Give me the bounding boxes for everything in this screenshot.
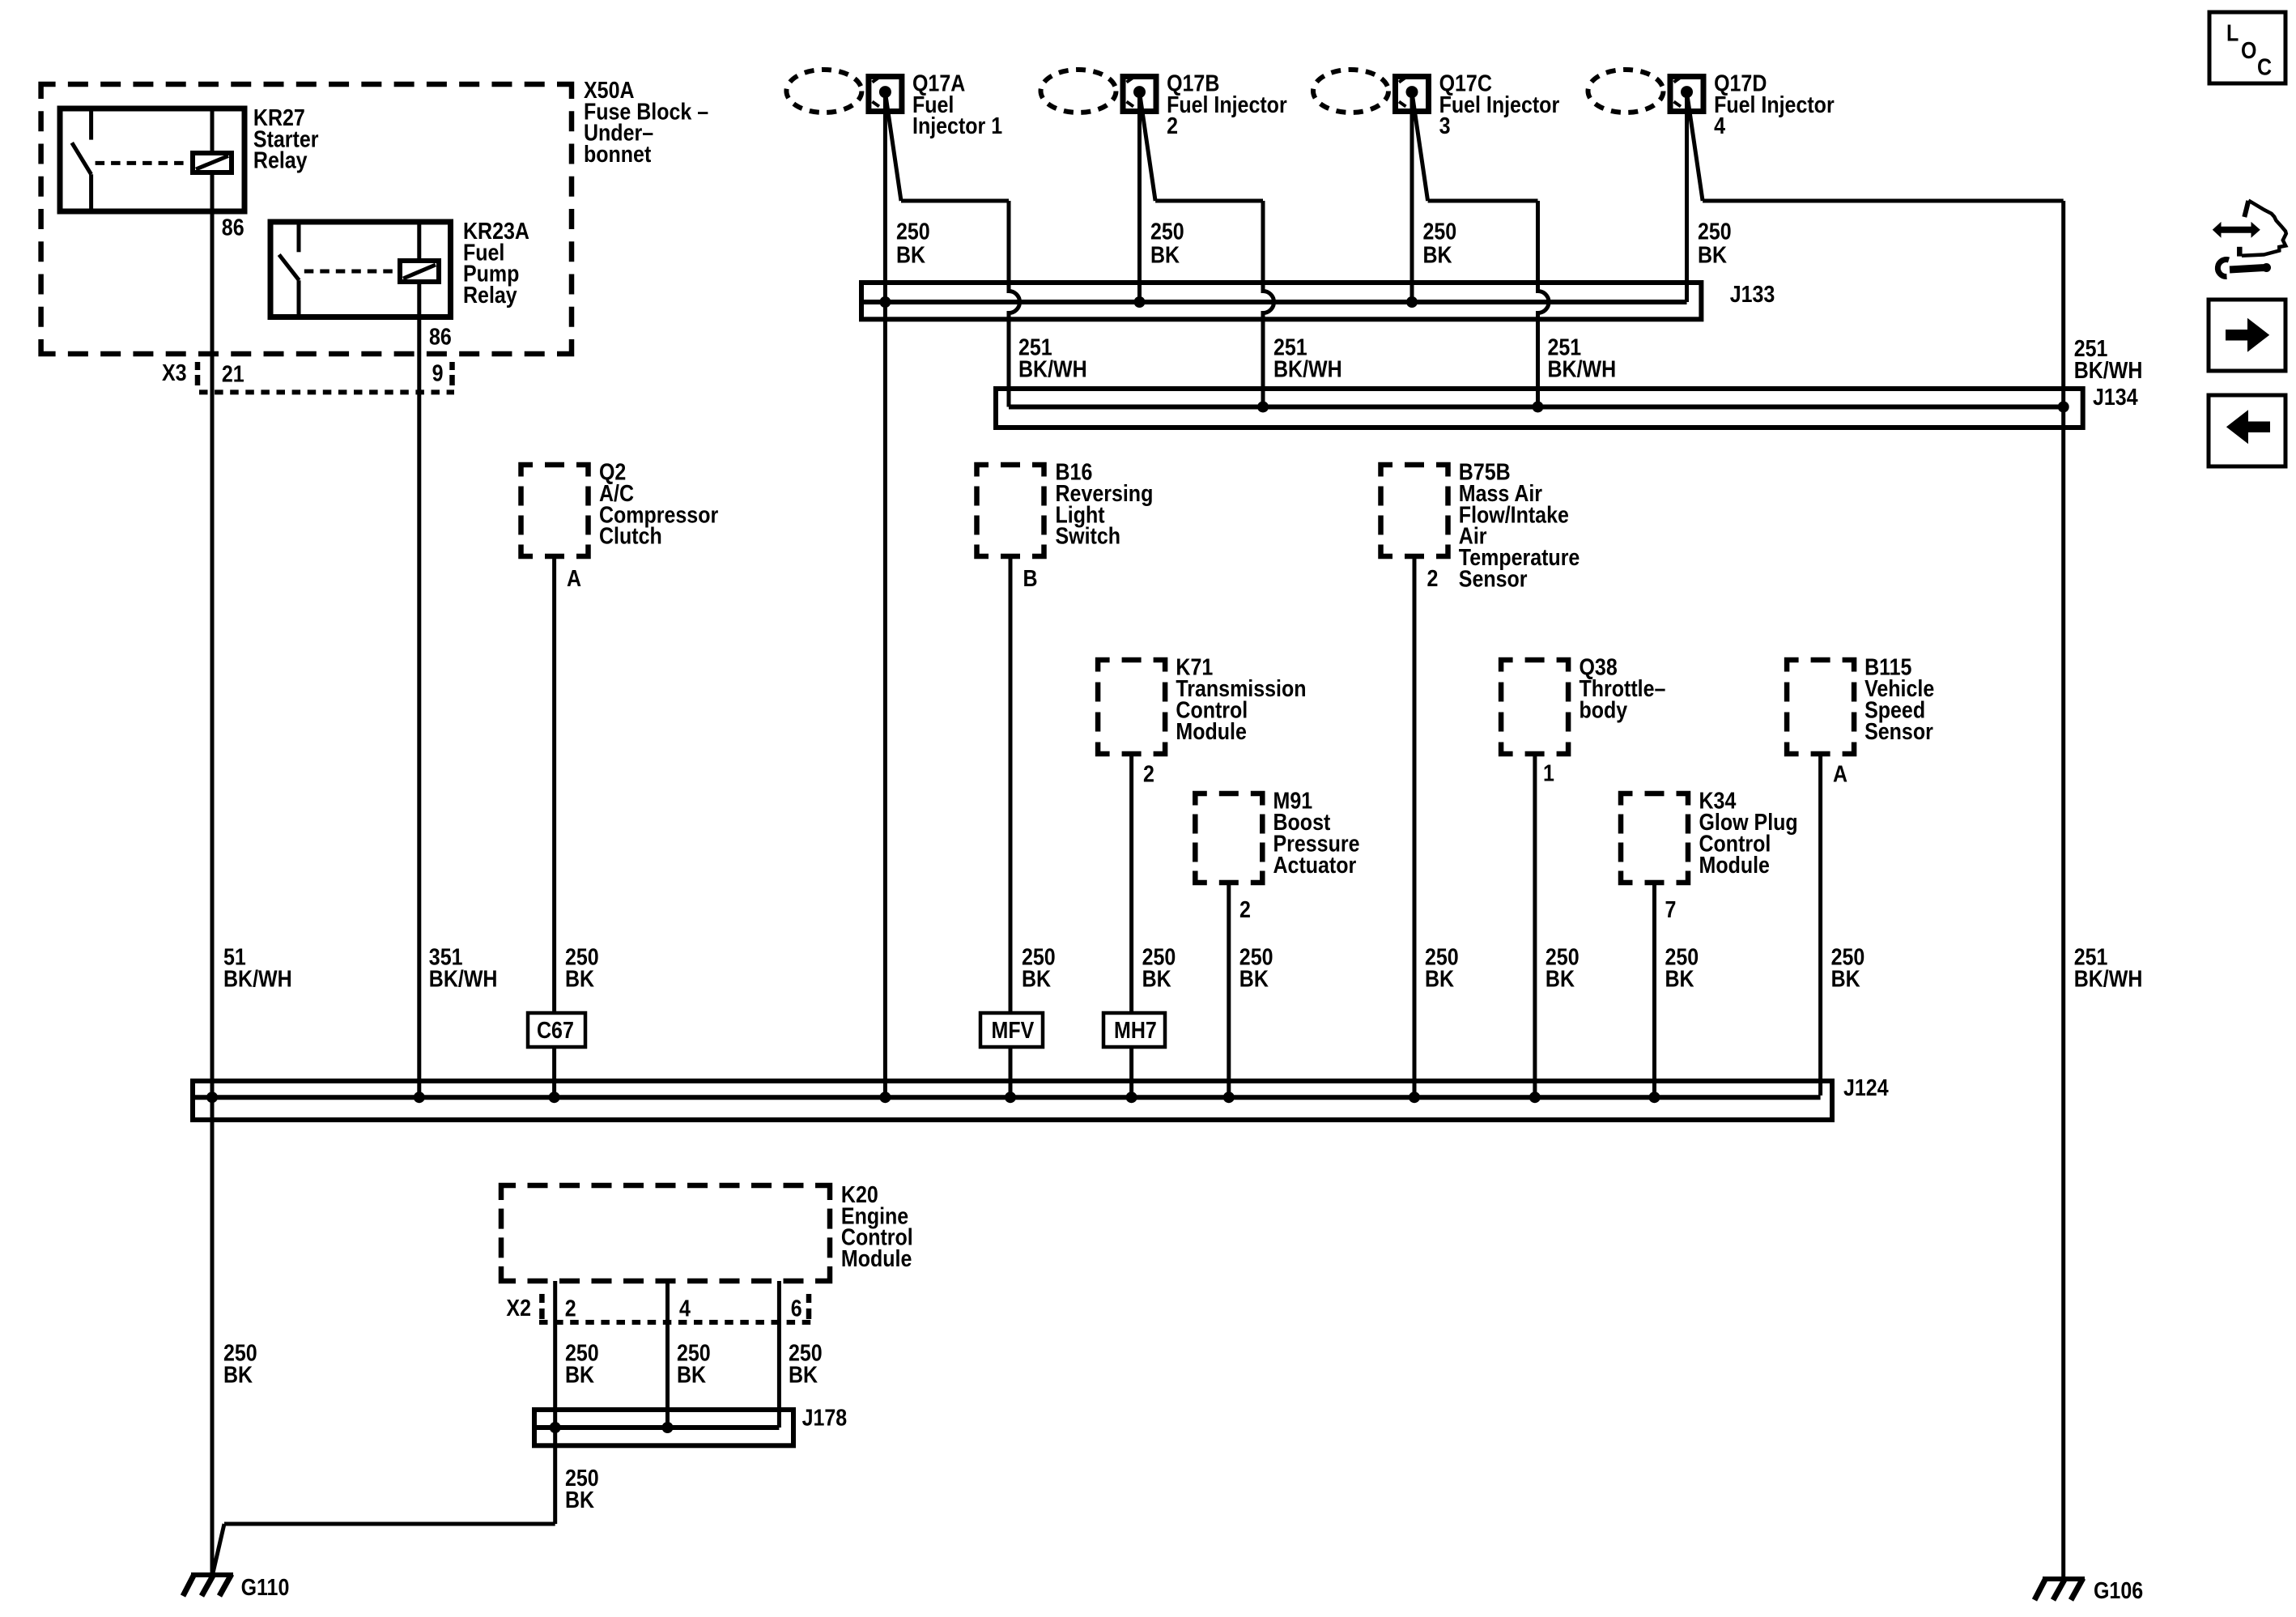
splice J178 outer box [534,1410,793,1445]
junction dot J124 at x=1747 [1409,1091,1420,1103]
A/C compressor clutch Q2 dashed box [521,465,589,556]
icon: wrench [2217,260,2229,277]
wire 250 BK from B16 pin B to MFV and J124 [1009,556,1013,1097]
vehicle speed sensor B115 dashed box [1787,660,1854,754]
fuel injector Q17B terminal marks [1127,78,1134,83]
junction dot Q17A/J133 [879,296,891,308]
glow plug control module K34 dashed box [1621,794,1688,883]
wire 250 BK from K20 X2 pin 2 to J178 and G110 [553,1281,557,1524]
connector X2 left dashes [539,1294,545,1303]
svg-text:Fuel Injector: Fuel Injector [1167,91,1287,117]
svg-text:BK: BK [1150,241,1180,268]
left-arrow box [2209,395,2285,466]
relay KR27 coil link (dashed) [96,161,189,165]
svg-text:3: 3 [1439,112,1451,138]
junction dot Q17B/J133 [1134,296,1146,308]
fuel injector Q17A ellipse [786,70,861,113]
relay KR23A coil [400,261,439,282]
svg-text:BK: BK [223,1361,253,1388]
svg-text:Module: Module [1699,851,1770,878]
wire 250 BK from Q38 pin 1 to J124 [1533,754,1537,1097]
wire 250 BK from K34 pin 7 to J124 [1652,883,1656,1097]
connector X3 right dashes [449,362,455,370]
splice J134 outer box [996,389,2083,428]
svg-text:BK: BK [565,1361,595,1388]
left arrow [2246,422,2270,433]
svg-text:BK: BK [677,1361,707,1388]
junction dot J124 at x=1895.9 [1529,1091,1541,1103]
relay KR27 coil [193,153,232,172]
svg-text:86: 86 [429,323,452,350]
svg-text:BK/WH: BK/WH [1018,355,1087,382]
wire 351 BK/WH from KR23A pin 86 through X3 pin 9 down to J124 [417,282,421,1097]
svg-text:BK/WH: BK/WH [2074,356,2143,383]
svg-text:1: 1 [1543,760,1554,786]
connector MH7 box [1103,1013,1165,1047]
svg-text:BK: BK [1831,965,1861,992]
svg-text:Actuator: Actuator [1273,851,1357,878]
junction dot X2-2/J178 [550,1422,561,1433]
relay KR27 switch [89,109,93,140]
wire 250 BK from Q17D to J133 [1685,92,1689,302]
right arrow [2226,330,2250,341]
connector X3 bottom dashed line [199,389,454,394]
connector C67 box [528,1013,585,1047]
wire 250 BK from B75B pin 2 to J124 [1413,556,1417,1097]
svg-text:BK/WH: BK/WH [223,965,292,992]
reversing light switch B16 dashed box [977,465,1044,556]
connector MFV box [980,1013,1043,1047]
wire 51 BK/WH from KR27 pin 86 through X3 pin 21 down to J124 and G110 [210,211,215,1577]
connector X2 right dashes [806,1294,812,1303]
svg-text:BK: BK [1239,965,1269,992]
svg-text:L: L [2226,19,2239,46]
svg-text:BK: BK [1425,965,1455,992]
relay KR23A switch [297,222,301,252]
relay KR23A coil link (dashed) [304,270,398,274]
relay KR27 coil wire (pin 86) [210,109,215,153]
junction dot Q17C/J133 [1406,296,1418,308]
junction dot J124 at x=517.8 [414,1091,425,1103]
svg-text:G106: G106 [2094,1577,2143,1603]
svg-text:BK: BK [565,1486,595,1513]
fuel injector Q17B pin dot [1133,86,1146,98]
svg-text:2: 2 [1167,112,1178,138]
fuel injector Q17A connector square [869,77,902,112]
svg-text:Injector 1: Injector 1 [912,112,1002,138]
svg-text:BK: BK [1546,965,1575,992]
svg-text:BK: BK [565,965,595,992]
fuel injector Q17D pin dot [1681,86,1693,98]
fuel injector Q17C terminal marks [1399,78,1406,83]
svg-text:2: 2 [1143,760,1154,787]
wire 251 BK/WH from Q17D to right side and down to J134 and G106 [1687,92,1703,201]
svg-text:A: A [567,564,581,591]
wire 251 BK/WH from Q17B to J134 [1140,92,1156,201]
fuel injector Q17D terminal marks [1674,78,1682,83]
svg-text:C67: C67 [537,1016,574,1043]
junction dot J124 at x=684.6 [549,1091,560,1103]
fuel injector Q17B ellipse [1041,70,1116,113]
wire 250 BK from K20 X2 pin 4 to J178 [665,1281,670,1428]
wire 250 BK from B115 pin A to J124 right end [1818,754,1822,1096]
svg-text:BK/WH: BK/WH [1548,355,1617,382]
svg-text:BK: BK [1423,241,1453,268]
junction dot Q17C/J134 [1533,402,1544,413]
wire 250 BK from Q17A to J133 and on to J124 [883,92,887,1097]
fuel injector Q17A terminal marks [872,78,879,83]
svg-text:2: 2 [1239,896,1251,922]
svg-text:21: 21 [222,360,244,387]
svg-text:bonnet: bonnet [584,140,651,167]
fuel injector Q17C pin dot [1406,86,1418,98]
splice J134 bus wire [1009,405,2064,410]
relay KR23A box [270,222,451,317]
connector X2 bottom dashed line [539,1320,812,1325]
right-arrow box [2209,300,2285,371]
junction dot J124 at x=1397.6 [1126,1091,1137,1103]
svg-text:J178: J178 [802,1404,848,1431]
svg-text:6: 6 [791,1295,802,1321]
svg-text:A: A [1833,760,1847,787]
splice J178 bus wire [537,1425,779,1430]
transmission control module K71 dashed box [1098,660,1165,754]
wire 251 BK/WH from Q17C to J134 [1412,92,1428,201]
svg-text:BK: BK [1022,965,1052,992]
splice J124 outer box [193,1081,1832,1120]
fuel injector Q17D connector square [1670,77,1703,112]
svg-text:J124: J124 [1843,1074,1889,1100]
fuse block X50A dashed enclosure [41,84,572,354]
svg-text:7: 7 [1665,896,1677,922]
svg-text:Relay: Relay [253,147,308,173]
svg-text:Module: Module [1176,717,1246,744]
fuel injector Q17D ellipse [1588,70,1664,113]
wire 250 BK from Q17C to J133 [1410,92,1414,302]
svg-text:Fuel Injector: Fuel Injector [1714,91,1835,117]
junction dot X2-4/J178 [662,1422,674,1433]
junction dot J124 at x=1248 [1005,1091,1016,1103]
svg-text:X2: X2 [506,1294,531,1321]
LOC box [2209,12,2285,83]
splice J133 bus wire [864,300,1687,304]
relay KR23A coil wire (pin 86) [417,222,421,261]
svg-text:Module: Module [841,1245,912,1271]
svg-text:9: 9 [432,360,444,386]
svg-text:MH7: MH7 [1114,1016,1157,1043]
svg-text:Clutch: Clutch [599,522,662,549]
fuel injector Q17C connector square [1396,77,1429,112]
svg-text:Fuel Injector: Fuel Injector [1439,91,1560,117]
splice J133 outer box [861,283,1701,319]
svg-text:BK: BK [789,1361,818,1388]
relay KR27 box [60,109,244,211]
svg-text:Switch: Switch [1056,522,1121,549]
svg-text:BK: BK [1142,965,1172,992]
svg-text:4: 4 [679,1295,691,1321]
svg-text:G110: G110 [241,1573,290,1600]
mass air flow sensor B75B dashed box [1381,465,1448,556]
fuel injector Q17C ellipse [1313,70,1388,113]
fuel injector Q17B connector square [1123,77,1156,112]
junction dot J124 at x=262 [206,1091,218,1103]
junction dot right wire/J134 [2058,402,2069,413]
svg-text:2: 2 [1427,564,1439,591]
svg-text:BK/WH: BK/WH [429,965,498,992]
svg-text:Relay: Relay [463,281,517,308]
svg-text:Sensor: Sensor [1864,717,1933,744]
svg-text:BK: BK [1665,965,1695,992]
svg-text:J134: J134 [2093,383,2138,410]
svg-text:J133: J133 [1730,280,1775,307]
fuel injector Q17A pin dot [879,86,891,98]
junction dot Q17B/J134 [1257,402,1269,413]
svg-text:BK: BK [896,241,926,268]
wire 250 BK from K71 pin 2 to MH7 and J124 [1129,754,1133,1097]
wire 250 BK from Q2 pin A to C67 and J124 [552,556,556,1097]
junction dot J124 at x=1093.4 [879,1091,891,1103]
svg-text:MFV: MFV [992,1016,1035,1043]
icon: double headed arrow [2219,227,2253,233]
svg-text:Sensor: Sensor [1459,565,1528,592]
svg-text:X3: X3 [162,359,187,385]
throttle body Q38 dashed box [1501,660,1568,754]
icon: vehicle front outline [2242,201,2286,256]
svg-text:86: 86 [222,214,244,240]
svg-text:C: C [2257,53,2272,80]
splice J124 bus wire [195,1095,1821,1100]
svg-text:BK/WH: BK/WH [1273,355,1342,382]
wire 251 BK/WH from Q17A to J134 [885,92,901,201]
svg-text:BK/WH: BK/WH [2074,965,2143,992]
svg-text:O: O [2241,36,2256,63]
wire 250 BK from K20 X2 pin 6 to J178 [777,1281,781,1428]
svg-text:BK: BK [1698,241,1728,268]
ground G106 [2043,1577,2085,1581]
junction dot J124 at x=2043.5 [1649,1091,1660,1103]
junction dot J124 at x=1517.8 [1223,1091,1235,1103]
svg-text:body: body [1580,696,1628,723]
engine control module K20 dashed box [501,1185,830,1281]
svg-text:2: 2 [565,1295,576,1321]
ground G110 [191,1572,233,1577]
connector X3 left dashes [195,362,201,370]
boost pressure actuator M91 dashed box [1195,794,1262,883]
wire 250 BK from M91 pin 2 to J124 [1227,883,1231,1097]
wire 250 BK from Q17B to J133 [1137,92,1142,302]
svg-text:4: 4 [1714,112,1725,138]
svg-text:B: B [1023,564,1038,591]
